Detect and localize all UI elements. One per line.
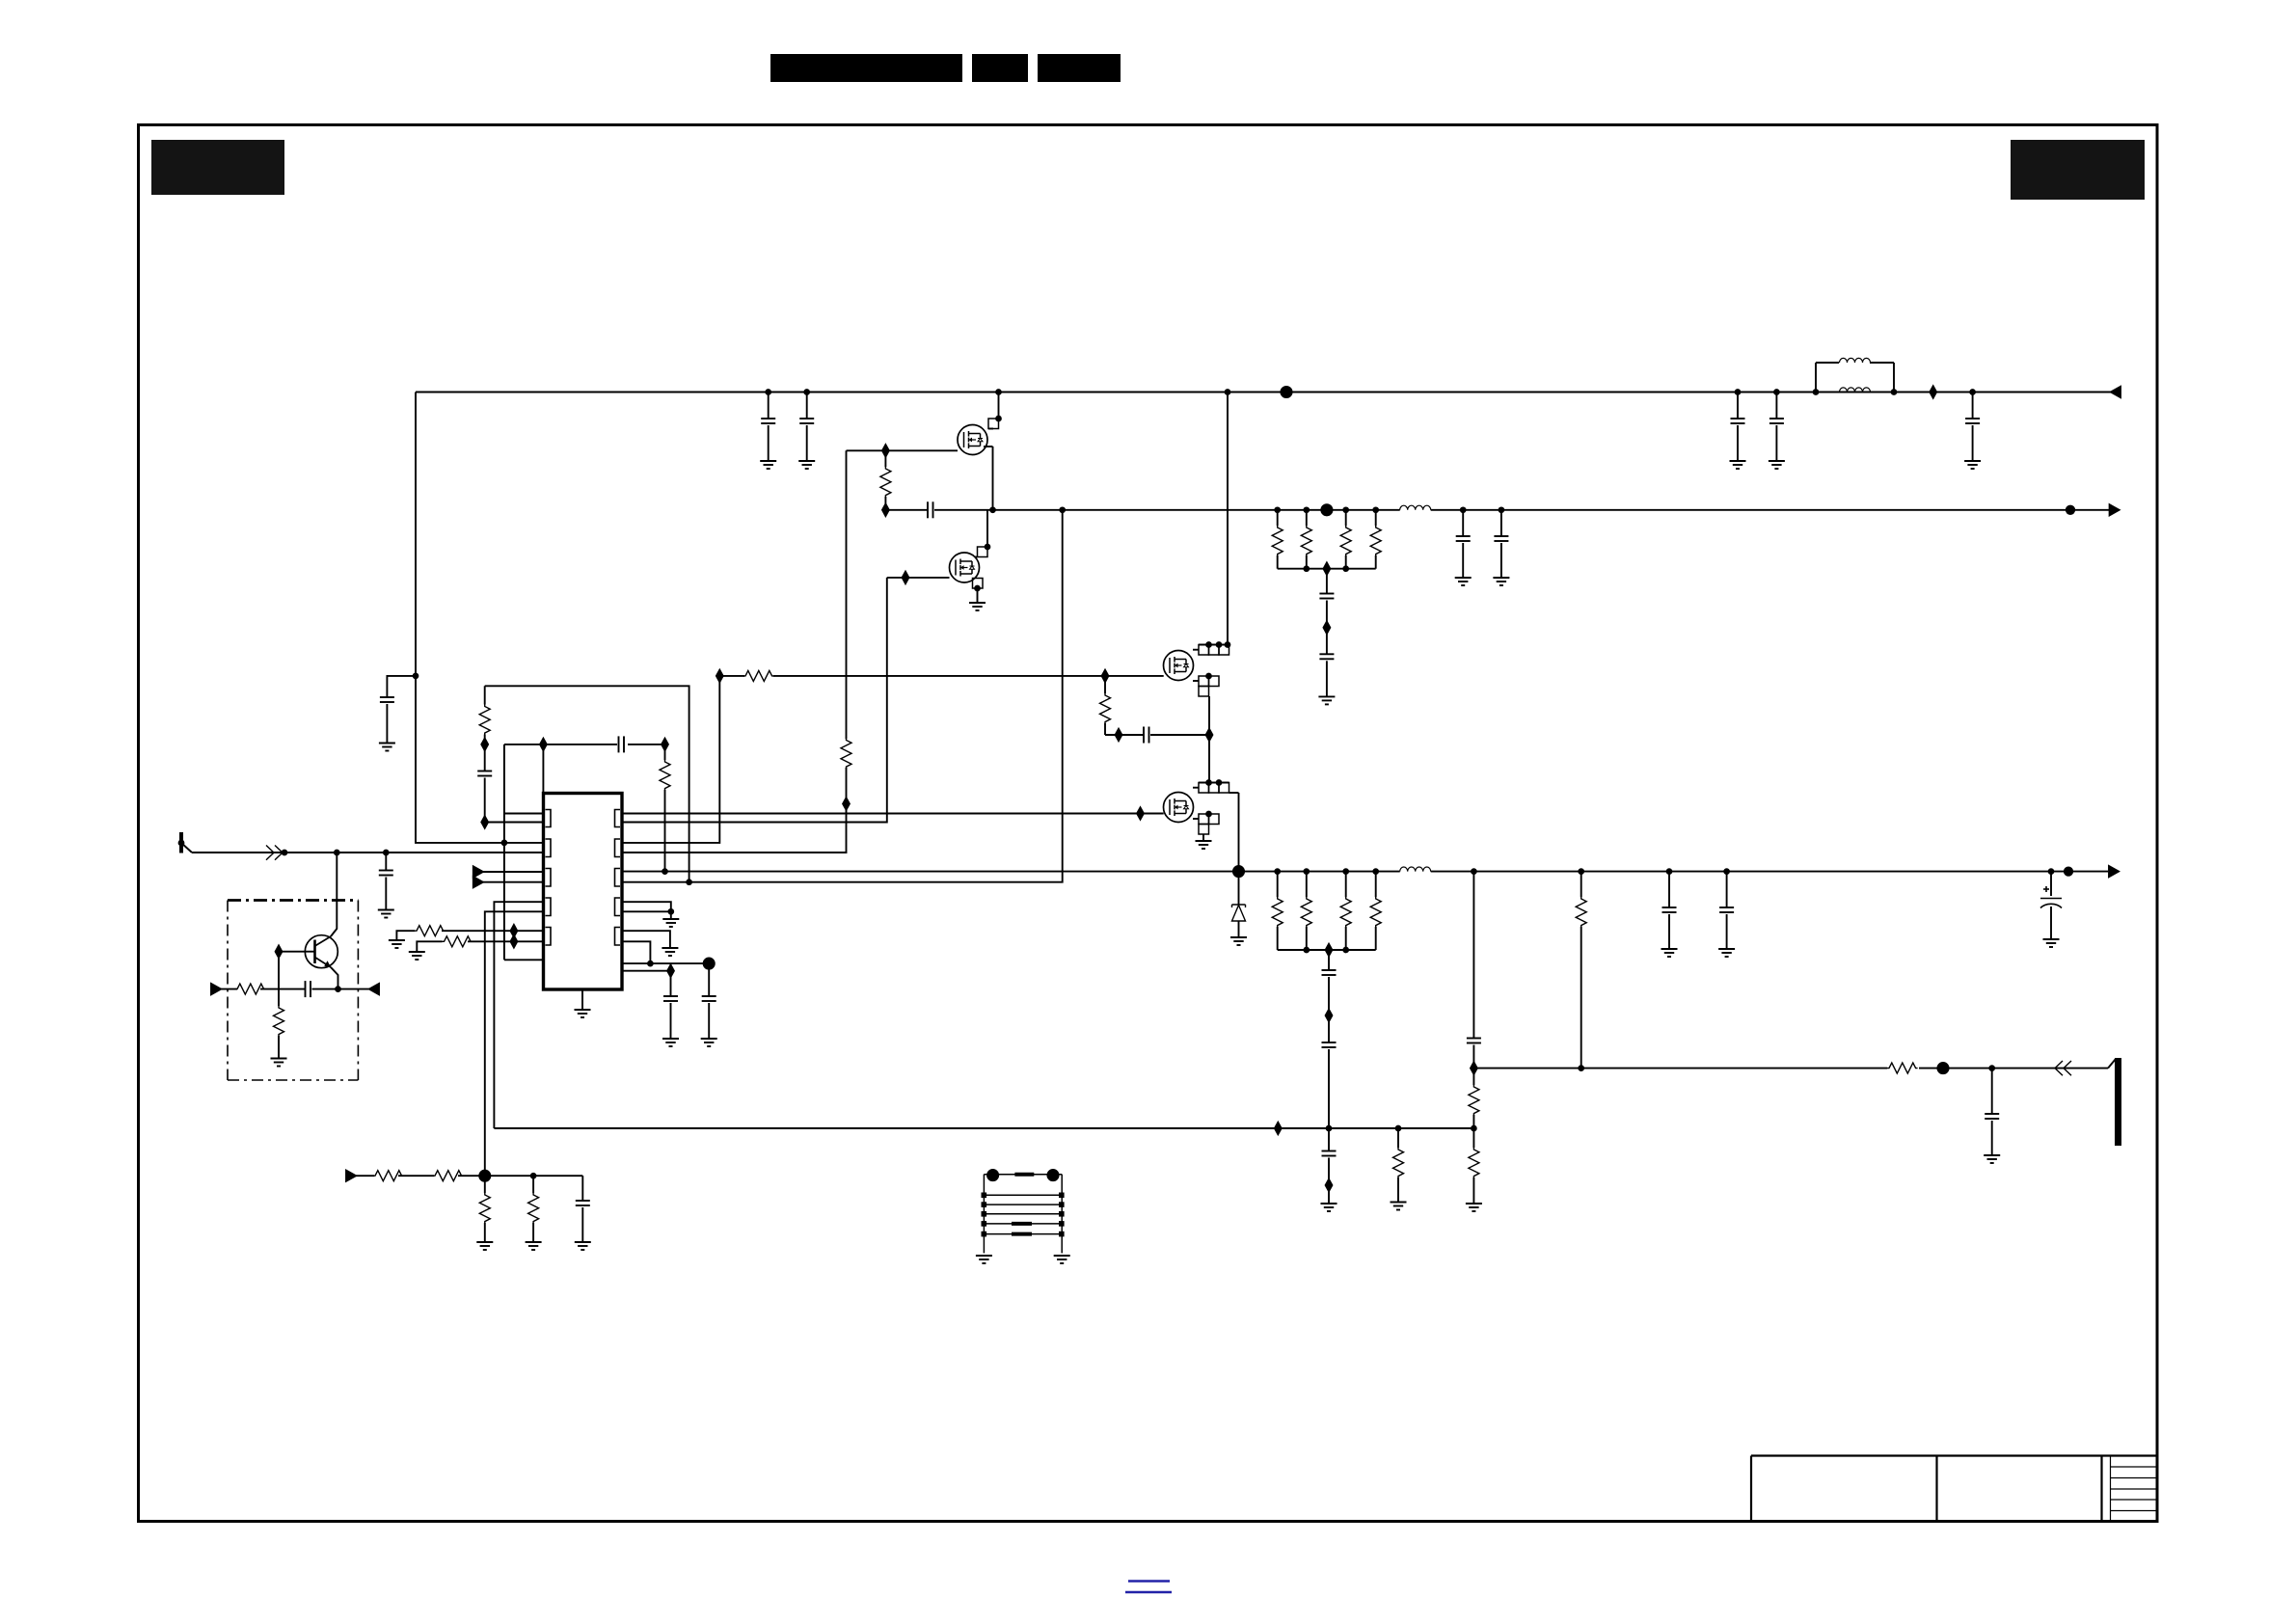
junction C4: [1774, 390, 1779, 394]
node big dot bottom: [479, 1171, 490, 1181]
polarized capacitor C18 on third rail: [2049, 869, 2054, 874]
junction Q1 source / H2: [990, 507, 995, 512]
node big dot on H5: [1937, 1063, 1948, 1073]
pad Q2 source: [973, 579, 984, 589]
capacitor C6 bootstrap (series, horizontal): [885, 509, 928, 511]
wire: third rail (output): [622, 871, 2108, 873]
junction input / Q5 collector: [335, 851, 339, 855]
pin brackets U1 left side: [546, 810, 552, 946]
ground C9: [1455, 578, 1472, 585]
ground R12: [1466, 1204, 1482, 1211]
wire U1 pin L1b from comp chain: [485, 822, 544, 824]
wire Q3 gate drive vertical down to IC pin R2a: [622, 676, 719, 843]
wire U1 bottom pin net: [622, 962, 709, 964]
wire U1 pin R5b joins lower net: [622, 941, 650, 963]
ground C3: [1730, 461, 1746, 469]
ground J1 left: [976, 1256, 992, 1263]
black label box top-left: [151, 140, 284, 195]
wire U1 pin L5a: [440, 930, 544, 932]
inductor L3 on third rail: [1400, 864, 1431, 878]
ground J1 right: [1054, 1256, 1070, 1263]
capacitor C13 tap chain: [1328, 1015, 1330, 1042]
ground C16: [1661, 949, 1678, 957]
transistor Q3 high-side MOSFET (buck 2): [1164, 651, 1194, 681]
junction diamond bank 2 tap: [1326, 944, 1333, 956]
ground R26: [526, 1242, 542, 1250]
junction diamond Q1 gate / R1: [882, 445, 889, 456]
arrowhead right at end of third rail: [2109, 866, 2119, 877]
junction diamond L5b: [511, 935, 518, 947]
resistor bank R2 on second rail: [1275, 507, 1280, 512]
capacitor C15 divider top: [1472, 872, 1474, 1039]
capacitor C21 comp (series horizontal): [617, 735, 628, 754]
transistor Q2 low-side MOSFET: [950, 553, 980, 582]
ground bank tap: [1318, 696, 1335, 704]
wire Q5 base: [279, 951, 315, 953]
wire Q4 gate: [1141, 813, 1164, 815]
ground R18: [389, 940, 405, 948]
wire comp horizontal upper: [504, 744, 665, 745]
input arrow U1 pin L3b: [473, 877, 483, 887]
pad Q1 drain: [988, 419, 999, 429]
input pin symbol: [179, 832, 183, 853]
ground C4: [1769, 461, 1785, 469]
junction comp vertical / L2a: [502, 841, 507, 846]
ground C1: [760, 461, 776, 469]
resistor bank R10 on third rail: [1373, 869, 1378, 874]
wire bottom input line: [356, 1175, 374, 1177]
capacitor C25 sense decouple: [387, 676, 416, 697]
ground C2: [798, 461, 815, 469]
wire Q4 source to ground: [1202, 834, 1204, 841]
ground C24: [378, 910, 394, 918]
wire U1 pin R5a to ground: [622, 931, 670, 948]
junction diamond top rail: [1930, 386, 1936, 397]
wire U1 lowest right pin: [622, 970, 671, 972]
pads Q4 drain row: [1199, 782, 1229, 784]
junction third rail / divider vertical: [1472, 869, 1476, 874]
capacitor C10 second rail right: [1499, 507, 1504, 512]
chevron connector marks on H5: [2055, 1061, 2071, 1075]
junction diamond R1/C6: [882, 504, 889, 516]
wire H5 sense line: [1473, 1068, 2108, 1069]
wire U1 pin L1a from comp network: [504, 813, 544, 815]
resistor R19: [441, 934, 468, 949]
resistor R6: [1104, 676, 1106, 693]
ground R22: [1391, 1203, 1407, 1210]
inductor L2 on second rail: [1400, 503, 1431, 516]
ground R19: [409, 952, 425, 960]
resistor R24: [433, 1171, 464, 1181]
schematic frame border: [139, 125, 2158, 1522]
wire: second rail (switch-node output): [993, 509, 2110, 511]
wire input line to U1 pin L2b: [192, 852, 544, 853]
wire Q2 gate: [887, 577, 950, 579]
junction diamond R6 / C11: [1116, 729, 1122, 741]
junction diamond C14: [1326, 1179, 1333, 1191]
resistor R27 in Q3 gate line: [744, 668, 773, 684]
capacitor C4 top rail right: [1775, 392, 1777, 420]
junction H4 right end: [1472, 1126, 1476, 1131]
wire Q4 drain to third rail: [1238, 793, 1240, 872]
capacitor C14 below H4: [1328, 1128, 1330, 1151]
resistor R20: [235, 984, 266, 994]
junction diamond Q1 riser: [843, 798, 850, 809]
resistor bank R5 on second rail: [1373, 507, 1378, 512]
black label box top-right: [2011, 140, 2145, 200]
junction diamond comp: [481, 739, 488, 750]
junction VIN sense / C25: [414, 674, 419, 679]
arrowhead bottom-left input: [346, 1171, 356, 1181]
junction diamond bank tap: [1324, 563, 1331, 575]
junction diamond Q3 gate / R6: [1102, 670, 1109, 682]
wire U1 pin R2b to Q1 gate riser: [622, 450, 847, 853]
junction diamond divider mid: [1471, 1062, 1477, 1073]
redaction bar 1 (header): [770, 54, 962, 82]
node big dot bottom net: [704, 959, 715, 969]
junction dot near second rail end: [2066, 506, 2074, 514]
MAIN SCHEMATIC: [416, 392, 2111, 843]
junction diamond comp horizontal: [540, 739, 547, 750]
resistor bank R3 on second rail: [1304, 507, 1309, 512]
wire comp top loop: [485, 686, 689, 881]
ground C23: [662, 1039, 679, 1046]
redaction bar 2 (header): [972, 54, 1028, 82]
ground C17: [1718, 949, 1735, 957]
resistor R17 in Q1 gate riser: [839, 739, 853, 768]
capacitor C11 (series horizontal): [1105, 734, 1144, 736]
junction R5b: [648, 961, 653, 966]
junction C1: [766, 390, 770, 394]
junction diamond Q4 gate: [1137, 807, 1144, 819]
wire RC line: [221, 988, 237, 990]
junction diamond comp right: [662, 739, 668, 750]
junction comp loop / R3b: [687, 880, 691, 884]
capacitor C16 on third rail: [1667, 869, 1672, 874]
resistor R22 below H4: [1397, 1128, 1399, 1148]
resistor bank R8 on third rail: [1304, 869, 1309, 874]
wire U1 pin R1b to Q2 gate riser: [622, 578, 887, 823]
resistor R15 comp: [484, 686, 486, 704]
resistor R25 to ground: [484, 1176, 486, 1193]
junction diamond Q2 gate: [903, 572, 909, 583]
capacitor C7 bank tap: [1326, 569, 1328, 594]
junction C2: [804, 390, 809, 394]
capacitor C26 (series horizontal): [306, 981, 311, 997]
junction diamond on H4: [1275, 1123, 1282, 1134]
node big dot on top rail: [1281, 387, 1291, 397]
junction H5 / R13 vertical: [1579, 1066, 1583, 1070]
ground C19: [1984, 1155, 2000, 1163]
ground C25: [379, 744, 395, 751]
capacitor C17 on third rail: [1724, 869, 1729, 874]
capacitor C3 top rail right: [1737, 392, 1739, 420]
wire Q1 drain to top rail: [998, 392, 1000, 420]
junction RC / emitter: [336, 987, 340, 991]
wire bus under resistor bank R2-R5: [1278, 568, 1376, 570]
wire U1 pin R1a to Q4 gate: [622, 813, 1141, 815]
capacitor C1 on top rail: [768, 392, 770, 420]
resistor R11 divider: [1472, 1069, 1474, 1085]
ground D1: [1230, 937, 1247, 945]
resistor R13 from third rail: [1579, 869, 1583, 874]
wire bus under resistor bank R7-R10: [1278, 949, 1376, 951]
capacitor C2 on top rail: [806, 392, 808, 420]
resistor bank R4 on second rail: [1343, 507, 1348, 512]
wire U1 pin R4a to ground tie: [622, 902, 671, 911]
transistor Q5 NPN: [305, 935, 338, 968]
junction R4 tie: [668, 909, 673, 914]
resistor bank R7 on third rail: [1275, 869, 1280, 874]
resistor R21 to ground: [278, 989, 280, 1006]
resistor R18: [416, 924, 442, 938]
wire: top rail VIN: [416, 392, 2111, 393]
wire: VIN sense drop to IC pin L2a: [416, 392, 544, 843]
node big dot switch node on third rail: [1233, 866, 1244, 877]
wire Q5 emitter: [331, 967, 338, 989]
resistor R26 to ground: [532, 1176, 534, 1193]
junction dot bottom: [531, 1174, 536, 1178]
capacitor C27 to ground: [581, 1176, 583, 1201]
junction diamond comp lower: [481, 816, 488, 827]
resistor bank R9 on third rail: [1343, 869, 1348, 874]
wire comp vertical: [503, 744, 505, 960]
dash-dot module box: [228, 901, 358, 1081]
ground Q2: [969, 603, 986, 610]
wire U1 pin L4a long feedback riser: [494, 902, 543, 1128]
wire Q1 source to switch node: [992, 447, 994, 510]
pin brackets U1 right side: [615, 810, 621, 946]
junction C5: [1970, 390, 1975, 394]
junction diamond lowest pin: [667, 965, 674, 977]
wire U1 pin L5b: [468, 940, 544, 942]
resistor R1 gate pull: [884, 450, 886, 467]
arrowhead right at end of second rail: [2110, 504, 2120, 515]
ground C22: [701, 1039, 717, 1046]
junction diamond Q5 base: [276, 946, 283, 958]
capacitor C24 input: [385, 853, 387, 871]
capacitor C23: [670, 971, 672, 996]
capacitor C20 comp: [484, 744, 486, 771]
inductor L1 dual winding on top rail: [1815, 363, 1817, 392]
capacitor C12 tap chain: [1328, 950, 1330, 970]
junction Q3 drain on top rail: [1226, 390, 1230, 394]
resistor R12 divider lower: [1472, 1128, 1474, 1148]
resistor R14 on H5: [1887, 1061, 1919, 1075]
wire Q2 drain to H2: [986, 510, 988, 547]
pads Q3 drain row: [1199, 644, 1229, 646]
ground C14: [1321, 1204, 1337, 1211]
junction dot H4 / R22: [1396, 1126, 1401, 1131]
zener diode D1: [1238, 872, 1240, 905]
junction after chevrons: [283, 851, 287, 855]
node big dot on second rail: [1321, 504, 1332, 515]
transistor Q1 high-side MOSFET: [958, 425, 987, 455]
junction diamond tap chain: [1324, 622, 1331, 634]
wire Q2 source to ground: [977, 588, 979, 603]
ground C18: [2043, 939, 2060, 947]
input arrow U1 pin L3a: [473, 866, 483, 877]
ground C10: [1493, 578, 1509, 585]
junction on feedback line H4: [1327, 1126, 1332, 1131]
junction diamond switch node 2: [1206, 729, 1213, 741]
ground R21: [271, 1059, 287, 1067]
junction C3: [1736, 390, 1741, 394]
junction input / C24: [384, 851, 389, 855]
junction dot near third rail end: [2065, 867, 2072, 875]
transistor Q4 low-side MOSFET (buck 2): [1164, 793, 1194, 823]
capacitor C9 second rail right: [1461, 507, 1466, 512]
wire H4 feedback line: [494, 1127, 1473, 1129]
footer link (blue): [1125, 1582, 1172, 1593]
resistor R23: [373, 1171, 404, 1181]
redaction bar 3 (header): [1038, 54, 1121, 82]
title block: [1751, 1456, 2157, 1522]
ground C27: [575, 1242, 591, 1250]
capacitor C8 bank tap lower: [1326, 628, 1328, 655]
capacitor C19 on H5: [1989, 1066, 1994, 1070]
junction diamond Q3 gate corner: [716, 670, 723, 682]
pads Q4 source: [1199, 814, 1209, 825]
arrowhead at RC line right: [369, 984, 379, 994]
resistor R16 comp right: [664, 744, 666, 760]
capacitor C22 bottom net: [708, 963, 710, 996]
connector blade (thick bar) at H5 end: [2108, 1059, 2116, 1069]
wire U1 lower-left pin: [504, 959, 544, 961]
junction diamond L5a: [511, 925, 518, 936]
op-amp U1 PWM controller IC body: [544, 794, 623, 990]
wire Q3 gate line: [719, 675, 1163, 677]
connector J1 block: [984, 1175, 1062, 1254]
arrowhead into RC line (left): [211, 984, 221, 994]
wire Q1 gate: [847, 449, 959, 451]
wire Q3 drain vertical to top rail: [1227, 392, 1229, 646]
ground Q4: [1196, 841, 1212, 849]
wire Q3 source down to Q4 drain: [1208, 696, 1210, 783]
arrowhead left at end of top rail: [2111, 387, 2120, 397]
wire U1 pin L4b long riser: [485, 911, 544, 1176]
wire U1 pin R4b: [622, 910, 671, 912]
pad Q2 drain: [978, 547, 988, 557]
junction R16 / third rail: [662, 869, 667, 874]
ground C5: [1964, 461, 1981, 469]
junction diamond tap chain 2: [1326, 1010, 1333, 1021]
wire comp tap to U1 top: [542, 744, 544, 794]
junction H2 / switch sense vertical: [1060, 507, 1065, 512]
ground U1 bottom: [581, 989, 583, 1010]
ground R4 tie: [662, 919, 679, 927]
ground R5a: [662, 948, 678, 956]
wire sense vertical from H2 down to IC pin R3b: [622, 510, 1063, 882]
chevron marks on input line: [266, 846, 283, 860]
ground R25: [476, 1242, 493, 1250]
capacitor C5 top rail far right: [1972, 392, 1974, 420]
wire Q5 collector: [331, 853, 337, 936]
pads Q3 source: [1199, 676, 1209, 687]
wire base to RC node: [278, 952, 280, 989]
